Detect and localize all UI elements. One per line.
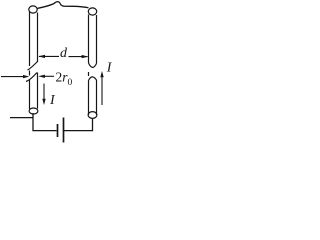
wire stub at lower left: [10, 117, 33, 119]
current arrow I left (down): [43, 84, 45, 101]
break slash lower on W1: [26, 73, 37, 82]
arrow 2r0 left lead: [1, 76, 24, 78]
svg-text:2r0: 2r0: [56, 70, 73, 89]
conductor W2 right edge (lower): [96, 80, 98, 115]
current arrow I right (up): [101, 76, 103, 106]
arrowhead I left down: [42, 99, 45, 105]
conductor W1 left edge (upper): [29, 12, 31, 67]
wire from W1 bottom to battery: [33, 113, 57, 131]
conductor W1 right edge (upper): [37, 13, 39, 63]
break cap on W2: [89, 77, 97, 81]
conductor W2 right edge (upper): [96, 15, 98, 64]
conductor W1 right edge (lower): [37, 73, 39, 109]
arrow 2r0 right lead: [44, 75, 54, 77]
arrowhead d left: [38, 55, 45, 58]
conductor W1 bottom cap ellipse: [29, 108, 38, 114]
dimension line d (left part): [39, 55, 59, 57]
svg-text:d: d: [60, 46, 68, 61]
arrowhead I right up: [100, 71, 103, 77]
battery B1 short plate: [57, 124, 59, 137]
break cup on W2: [89, 63, 97, 67]
conductor W2 left edge dash in break: [88, 72, 90, 76]
conductor W2 left edge (lower): [88, 81, 90, 116]
conductor W1 left edge dash in break: [29, 71, 31, 76]
break slash upper on W1: [28, 62, 38, 71]
conductor W2 left edge (upper): [88, 15, 90, 64]
arrowhead 2r0 pointing right at W1: [23, 75, 29, 78]
conductor W1 left edge (lower): [29, 80, 31, 110]
svg-text:I: I: [106, 61, 113, 76]
wire (top connecting wire with hump): [37, 2, 89, 9]
battery B1 long plate: [63, 118, 65, 143]
arrowhead 2r0 pointing left at W1: [38, 75, 45, 78]
dimension line d (right part): [69, 56, 88, 58]
wire from battery to W2 bottom: [64, 119, 93, 131]
conductor W1 (left cylinder) top cap ellipse: [29, 6, 37, 13]
svg-text:I: I: [49, 93, 56, 108]
conductor W2 bottom cap ellipse: [88, 112, 97, 119]
conductor W2 (right cylinder) top cap ellipse: [88, 8, 96, 15]
arrowhead d right: [82, 55, 89, 58]
